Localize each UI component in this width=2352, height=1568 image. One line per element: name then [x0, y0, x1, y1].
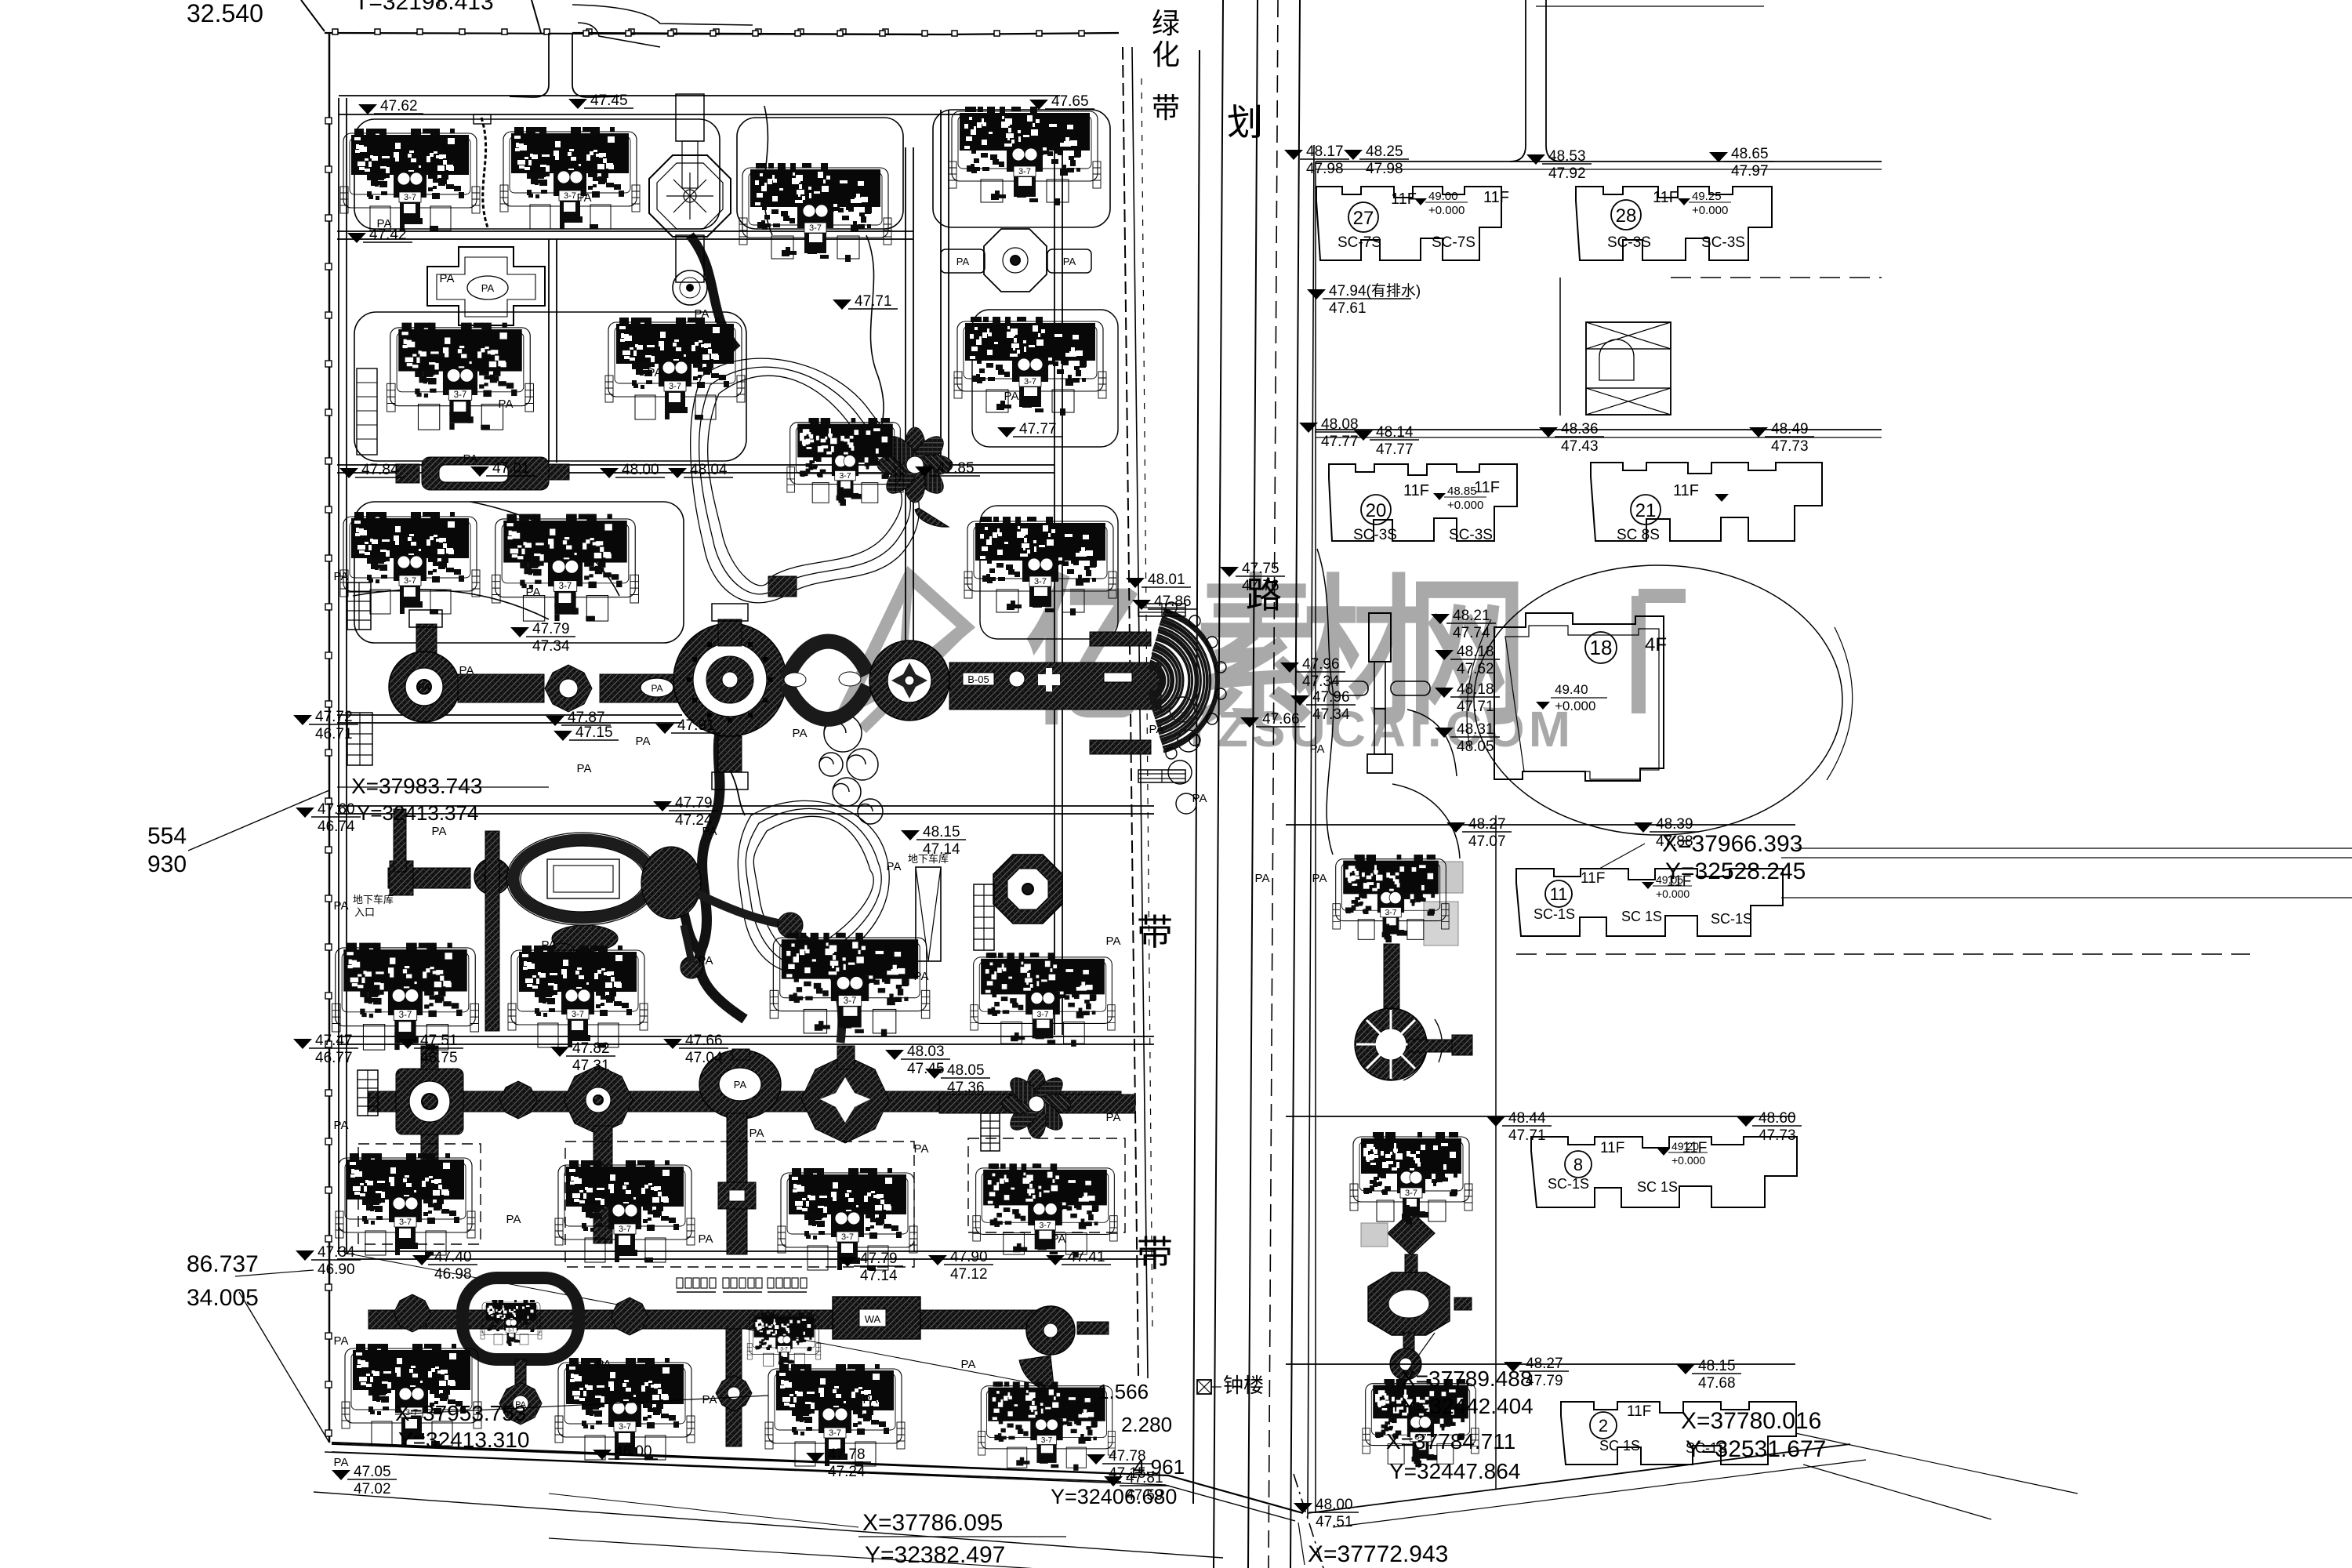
svg-text:48.15: 48.15: [1698, 1358, 1736, 1374]
svg-text:48.17: 48.17: [1306, 143, 1344, 160]
svg-text:11F: 11F: [1627, 1403, 1651, 1420]
svg-text:PA: PA: [863, 1393, 878, 1406]
svg-text:带: 带: [1137, 912, 1173, 953]
svg-text:11: 11: [1550, 884, 1568, 904]
svg-text:47.40: 47.40: [434, 1249, 472, 1265]
svg-text:Y=32382.497: Y=32382.497: [865, 1542, 1005, 1568]
svg-text:47.07: 47.07: [1468, 833, 1506, 850]
svg-text:带: 带: [1152, 92, 1180, 124]
svg-text:T=32198.413: T=32198.413: [354, 0, 494, 15]
svg-text:46.90: 46.90: [318, 1261, 355, 1278]
svg-text:47.65: 47.65: [1051, 93, 1089, 110]
svg-text:1.566: 1.566: [1098, 1380, 1149, 1403]
svg-text:48.31: 48.31: [1457, 721, 1494, 738]
svg-text:47.01: 47.01: [492, 460, 530, 477]
svg-text:PA: PA: [914, 1142, 929, 1156]
svg-text:PA: PA: [636, 735, 651, 748]
svg-text:47.73: 47.73: [1771, 438, 1809, 455]
svg-text:47.51: 47.51: [420, 1033, 458, 1049]
svg-text:47.73: 47.73: [1759, 1127, 1796, 1144]
svg-text:47.66: 47.66: [685, 1033, 723, 1049]
svg-text:11F: 11F: [1391, 191, 1417, 208]
svg-text:48.14: 48.14: [1376, 424, 1414, 441]
svg-text:11F: 11F: [1403, 482, 1429, 499]
svg-text:2: 2: [1599, 1416, 1608, 1436]
svg-text:+0.000: +0.000: [1671, 1154, 1705, 1167]
svg-text:PA: PA: [440, 272, 455, 285]
svg-text:46.74: 46.74: [318, 818, 355, 835]
svg-text:47.92: 47.92: [1548, 165, 1586, 182]
svg-text:47.14: 47.14: [860, 1268, 898, 1284]
svg-text:47.77: 47.77: [1321, 434, 1359, 450]
svg-text:47.84: 47.84: [361, 462, 399, 478]
svg-text:47.34: 47.34: [532, 638, 570, 655]
svg-text:PA: PA: [1312, 872, 1327, 885]
svg-text:PA: PA: [334, 1334, 349, 1348]
svg-text:X=37772.943: X=37772.943: [1308, 1541, 1448, 1567]
svg-text:47.82: 47.82: [572, 1040, 610, 1057]
svg-text:47.24: 47.24: [828, 1464, 866, 1480]
svg-text:PA: PA: [750, 1127, 764, 1140]
svg-text:48.18: 48.18: [1457, 644, 1494, 660]
svg-text:11F: 11F: [1653, 189, 1679, 206]
svg-text:PA: PA: [597, 1358, 612, 1371]
svg-text:47.02: 47.02: [354, 1481, 391, 1497]
svg-text:PA: PA: [334, 570, 349, 583]
svg-text:47.62: 47.62: [1457, 661, 1494, 677]
svg-text:48.15: 48.15: [923, 824, 960, 840]
svg-text:47.47: 47.47: [315, 1033, 353, 1049]
svg-text:PA: PA: [334, 1456, 349, 1469]
svg-text:PA: PA: [432, 825, 447, 838]
svg-text:入口: 入口: [354, 906, 375, 918]
svg-text:48.49: 48.49: [1771, 421, 1809, 437]
svg-text:49.25: 49.25: [1692, 190, 1722, 203]
svg-text:4F: 4F: [1645, 634, 1667, 655]
svg-text:PA: PA: [702, 825, 717, 838]
svg-text:47.14: 47.14: [923, 841, 960, 858]
svg-text:47.68: 47.68: [1698, 1375, 1736, 1392]
svg-text:47.79: 47.79: [1526, 1373, 1563, 1389]
svg-text:X=37784.711: X=37784.711: [1386, 1429, 1515, 1454]
svg-text:SC-7S: SC-7S: [1338, 234, 1381, 251]
svg-text:47.05: 47.05: [354, 1464, 391, 1480]
svg-text:48.01: 48.01: [1148, 572, 1185, 588]
svg-text:48.05: 48.05: [1457, 739, 1494, 755]
svg-text:47.34: 47.34: [318, 1244, 355, 1261]
svg-text:48.25: 48.25: [1366, 143, 1403, 160]
svg-text:PA: PA: [526, 586, 541, 599]
svg-text:47.79: 47.79: [860, 1250, 898, 1267]
svg-text:SC-1S: SC-1S: [1548, 1176, 1589, 1192]
svg-text:47.77: 47.77: [1376, 441, 1414, 458]
svg-text:+0.000: +0.000: [1428, 204, 1465, 217]
svg-text:46.75: 46.75: [420, 1050, 458, 1066]
svg-text:20: 20: [1366, 500, 1387, 521]
svg-text:PA: PA: [648, 366, 662, 379]
svg-text:PA: PA: [961, 1358, 976, 1371]
svg-text:21: 21: [1635, 500, 1657, 521]
svg-text:49.00: 49.00: [1428, 190, 1458, 203]
svg-text:47.96: 47.96: [1302, 656, 1340, 673]
svg-text:PA: PA: [334, 1119, 349, 1132]
svg-text:47.34: 47.34: [1312, 706, 1350, 723]
svg-text:47.41: 47.41: [1068, 1249, 1105, 1265]
svg-text:86.737: 86.737: [187, 1251, 259, 1277]
svg-text:47.91: 47.91: [677, 717, 715, 734]
svg-text:+0.000: +0.000: [1656, 887, 1690, 900]
svg-text:48.08: 48.08: [1321, 416, 1359, 433]
svg-text:PA: PA: [956, 256, 970, 267]
svg-text:Y=32531.677: Y=32531.677: [1686, 1436, 1826, 1462]
svg-text:47.45: 47.45: [590, 93, 628, 109]
svg-text:PA: PA: [699, 1232, 713, 1246]
svg-text:+Y=32442.404: +Y=32442.404: [1389, 1394, 1534, 1418]
svg-text:+0.000: +0.000: [1447, 499, 1483, 512]
svg-text:48.00: 48.00: [1316, 1497, 1353, 1513]
svg-text:PA: PA: [793, 727, 808, 740]
svg-text:48.03: 48.03: [907, 1044, 945, 1060]
svg-text:11F: 11F: [1483, 189, 1509, 206]
svg-text:47.31: 47.31: [572, 1058, 610, 1074]
svg-text:SC-3S: SC-3S: [1353, 527, 1397, 543]
svg-text:Y=32413.374: Y=32413.374: [357, 801, 478, 825]
svg-text:47.75: 47.75: [1242, 561, 1279, 577]
svg-text:47.88: 47.88: [1656, 833, 1693, 850]
svg-text:47.90: 47.90: [950, 1249, 988, 1265]
svg-text:PA: PA: [577, 762, 592, 775]
svg-text:18: 18: [1590, 636, 1613, 659]
svg-text:Y=32528.245: Y=32528.245: [1665, 858, 1806, 884]
svg-text:PA: PA: [418, 681, 431, 693]
svg-text:PA: PA: [1310, 742, 1325, 756]
svg-text:554: 554: [147, 823, 187, 849]
svg-text:PA: PA: [887, 860, 902, 873]
svg-text:Y=32413.310: Y=32413.310: [398, 1428, 529, 1452]
svg-text:SC-1S: SC-1S: [1711, 911, 1752, 927]
svg-text:47.71: 47.71: [855, 293, 892, 310]
svg-text:11F: 11F: [1673, 482, 1699, 499]
svg-text:47.60: 47.60: [318, 801, 355, 818]
svg-text:SC 8S: SC 8S: [1617, 527, 1660, 543]
svg-text:Y=32447.864: Y=32447.864: [1389, 1459, 1520, 1483]
svg-text:47.59: 47.59: [1126, 1487, 1163, 1504]
svg-text:49.20: 49.20: [1671, 1140, 1699, 1152]
svg-text:PA: PA: [1106, 935, 1121, 948]
svg-text:SC 1S: SC 1S: [1599, 1438, 1640, 1454]
svg-text:47.15: 47.15: [575, 724, 613, 741]
svg-text:48.05: 48.05: [947, 1062, 985, 1079]
svg-text:PA: PA: [1149, 723, 1164, 736]
svg-text:47.72: 47.72: [315, 709, 353, 725]
svg-text:SC-3S: SC-3S: [1701, 234, 1745, 251]
svg-text:WA: WA: [865, 1313, 881, 1325]
svg-text:PA: PA: [1004, 390, 1019, 403]
svg-text:+0.000: +0.000: [1555, 699, 1595, 713]
svg-text:SC-1S: SC-1S: [1534, 906, 1575, 922]
svg-text:PA: PA: [1063, 256, 1076, 267]
svg-text:46.77: 46.77: [315, 1050, 353, 1066]
svg-text:48.65: 48.65: [1731, 146, 1769, 162]
svg-text:47.97: 47.97: [1731, 163, 1769, 180]
svg-text:PA: PA: [499, 397, 514, 411]
svg-text:46.98: 46.98: [434, 1266, 472, 1283]
svg-text:PA: PA: [377, 217, 392, 230]
svg-text:47.71: 47.71: [1457, 699, 1494, 715]
svg-text:PA: PA: [651, 683, 662, 694]
svg-text:46.00: 46.00: [615, 1443, 652, 1460]
svg-text:11F: 11F: [1600, 1140, 1624, 1156]
svg-text:46.71: 46.71: [315, 726, 353, 742]
svg-text:X=37786.095: X=37786.095: [862, 1510, 1003, 1536]
svg-text:X=37780.016: X=37780.016: [1681, 1408, 1821, 1434]
svg-text:48.60: 48.60: [1759, 1110, 1796, 1127]
svg-text:47.12: 47.12: [950, 1266, 988, 1283]
svg-text:48.53: 48.53: [1548, 148, 1586, 165]
svg-text:地下车库: 地下车库: [353, 894, 394, 906]
svg-text:47.94(有排水): 47.94(有排水): [1329, 282, 1421, 299]
svg-text:PA: PA: [1051, 1232, 1066, 1246]
svg-text:PA: PA: [1106, 1111, 1121, 1124]
svg-text:PA: PA: [699, 954, 713, 967]
svg-text:划: 划: [1227, 102, 1263, 143]
svg-text:11F: 11F: [1474, 479, 1500, 496]
svg-text:SC-3S: SC-3S: [1449, 527, 1493, 543]
svg-text:27: 27: [1353, 208, 1374, 229]
svg-text:47.61: 47.61: [1329, 300, 1367, 317]
svg-text:48.44: 48.44: [1508, 1110, 1546, 1127]
svg-text:47.51: 47.51: [1316, 1514, 1353, 1530]
svg-text:PA: PA: [481, 282, 495, 294]
svg-text:47.66: 47.66: [1262, 711, 1300, 728]
svg-text:47.36: 47.36: [947, 1080, 985, 1096]
svg-text:47.74: 47.74: [1453, 625, 1490, 641]
svg-text:PA: PA: [542, 938, 557, 952]
svg-text:PA: PA: [734, 1079, 747, 1091]
svg-text:PA: PA: [459, 664, 474, 677]
svg-text:48.04: 48.04: [690, 462, 728, 478]
svg-text:化: 化: [1152, 38, 1180, 71]
svg-text:48.21: 48.21: [1453, 608, 1490, 624]
svg-text:47.87: 47.87: [568, 710, 605, 726]
svg-text:PA: PA: [695, 307, 710, 321]
svg-text:47.71: 47.71: [1508, 1127, 1546, 1144]
svg-text:SC-3S: SC-3S: [1607, 234, 1651, 251]
svg-text:47.79: 47.79: [532, 621, 570, 637]
svg-text:4.961: 4.961: [1134, 1455, 1185, 1479]
svg-text:47.98: 47.98: [1306, 161, 1344, 177]
svg-text:48.27: 48.27: [1526, 1356, 1563, 1372]
svg-text:PA: PA: [577, 191, 592, 205]
svg-text:PA: PA: [1255, 872, 1270, 885]
svg-text:47.98: 47.98: [1366, 161, 1403, 177]
svg-text:47.76: 47.76: [1242, 578, 1279, 594]
svg-text:PA: PA: [914, 970, 929, 983]
svg-text:11F: 11F: [1581, 870, 1605, 887]
svg-text:47.79: 47.79: [675, 795, 713, 811]
svg-text:48.00: 48.00: [622, 462, 659, 478]
svg-text:47.86: 47.86: [1154, 593, 1192, 610]
svg-text:SC 1S: SC 1S: [1637, 1179, 1678, 1195]
svg-text:48.27: 48.27: [1468, 816, 1506, 833]
svg-text:绿: 绿: [1152, 7, 1180, 39]
svg-text:47.96: 47.96: [1312, 689, 1350, 706]
svg-text:X=37983.743: X=37983.743: [351, 774, 482, 798]
svg-text:47.78: 47.78: [828, 1446, 866, 1463]
svg-text:PA: PA: [463, 452, 478, 466]
svg-text:2.280: 2.280: [1121, 1413, 1172, 1436]
svg-text:SC-7S: SC-7S: [1432, 234, 1475, 251]
svg-text:48.85: 48.85: [1447, 485, 1477, 498]
svg-text:47.43: 47.43: [1561, 438, 1599, 455]
svg-text:PA: PA: [334, 899, 349, 913]
svg-text:PA: PA: [506, 1213, 521, 1226]
svg-text:49.40: 49.40: [1555, 682, 1588, 697]
svg-text:48.36: 48.36: [1561, 421, 1599, 437]
svg-text:+0.000: +0.000: [1692, 204, 1728, 217]
svg-text:PA: PA: [1192, 792, 1207, 805]
svg-text:钟楼: 钟楼: [1223, 1374, 1264, 1397]
svg-text:32.540: 32.540: [187, 0, 263, 27]
svg-text:47.77: 47.77: [1019, 421, 1057, 437]
svg-text:930: 930: [147, 851, 187, 877]
svg-text:48.18: 48.18: [1457, 681, 1494, 698]
svg-text:47.85: 47.85: [937, 460, 975, 477]
svg-text:48.39: 48.39: [1656, 816, 1693, 833]
svg-text:SC 1S: SC 1S: [1621, 909, 1662, 924]
svg-text:28: 28: [1616, 205, 1637, 227]
svg-text:PA: PA: [702, 1393, 717, 1406]
svg-text:47.62: 47.62: [380, 98, 418, 114]
svg-text:47.34: 47.34: [1302, 673, 1340, 690]
svg-text:47.04: 47.04: [685, 1050, 723, 1066]
svg-text:带: 带: [1137, 1233, 1173, 1274]
svg-text:B-05: B-05: [967, 673, 989, 685]
svg-text:8: 8: [1573, 1155, 1583, 1174]
